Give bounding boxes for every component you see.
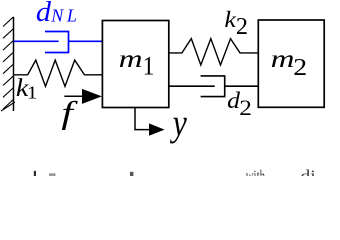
label m1 — [119, 45, 155, 80]
mass m1 — [102, 21, 168, 108]
caption fragment (cut off at bottom edge) — [34, 167, 316, 187]
svg-text:m: m — [271, 45, 295, 73]
svg-text:1: 1 — [27, 83, 38, 103]
svg-text:L: L — [66, 5, 77, 25]
damper dNL (blue, wall to m1) — [14, 32, 103, 53]
damper d2 (m1 to m2) — [169, 76, 258, 97]
spring k2 (m1 to m2) — [169, 39, 258, 65]
label d2 — [227, 88, 252, 120]
svg-text:m: m — [119, 45, 143, 72]
force arrow f — [64, 89, 102, 104]
label d_NL — [36, 0, 77, 28]
svg-text:f: f — [61, 95, 78, 130]
label m2 — [271, 45, 307, 81]
svg-text:2: 2 — [293, 54, 307, 81]
label k1 — [16, 73, 38, 103]
mass m2 — [258, 20, 324, 107]
svg-text:y: y — [170, 102, 187, 144]
svg-text:di: di — [301, 167, 316, 176]
svg-text:1: 1 — [143, 52, 155, 80]
svg-text:2: 2 — [239, 97, 252, 121]
svg-text:2: 2 — [236, 13, 248, 40]
spring k1 (wall to m1) — [14, 60, 103, 86]
svg-text:with: with — [246, 167, 265, 176]
displacement arrow y — [135, 108, 165, 136]
label k2 — [224, 7, 248, 40]
svg-text:d: d — [36, 0, 52, 28]
svg-text:N: N — [50, 5, 64, 25]
wall — [1, 17, 15, 111]
